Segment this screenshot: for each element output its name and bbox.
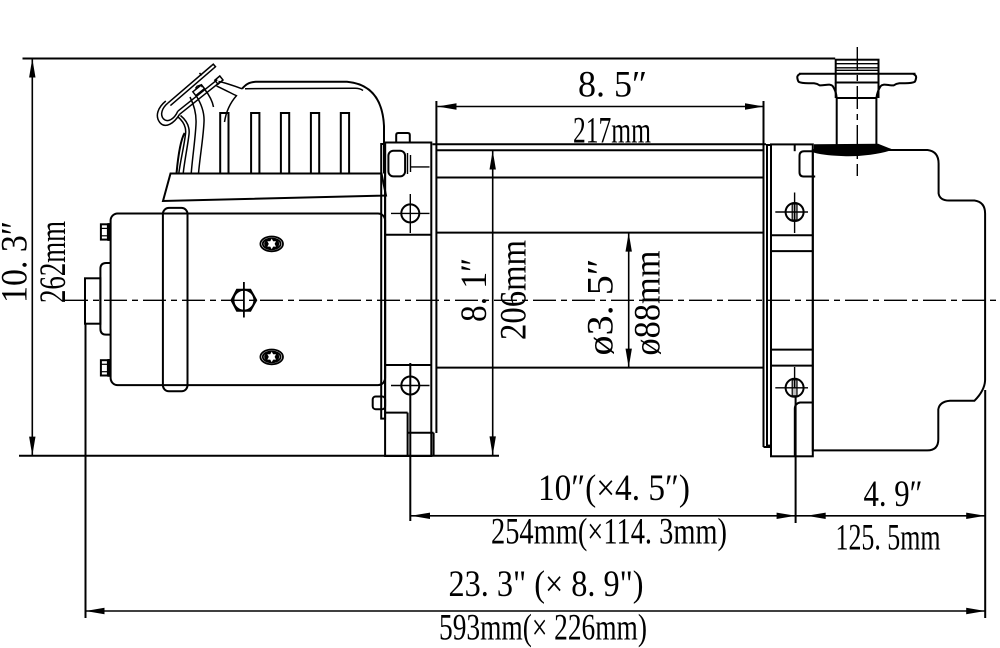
svg-text:10″(×4. 5″): 10″(×4. 5″) bbox=[538, 468, 690, 509]
svg-text:23. 3" (× 8. 9"): 23. 3" (× 8. 9") bbox=[449, 564, 644, 605]
svg-text:125. 5mm: 125. 5mm bbox=[836, 518, 941, 559]
svg-text:262mm: 262mm bbox=[33, 221, 74, 303]
svg-text:10. 3″: 10. 3″ bbox=[0, 221, 36, 303]
svg-text:217mm: 217mm bbox=[573, 111, 651, 152]
svg-text:206mm: 206mm bbox=[494, 240, 535, 340]
svg-text:254mm(×114. 3mm): 254mm(×114. 3mm) bbox=[491, 512, 727, 553]
svg-text:ø3. 5″: ø3. 5″ bbox=[581, 259, 622, 356]
svg-text:4. 9″: 4. 9″ bbox=[864, 474, 923, 515]
svg-text:8. 5″: 8. 5″ bbox=[578, 65, 647, 106]
svg-text:593mm(× 226mm): 593mm(× 226mm) bbox=[439, 608, 647, 648]
svg-text:8. 1″: 8. 1″ bbox=[454, 258, 495, 322]
svg-text:ø88mm: ø88mm bbox=[628, 250, 669, 355]
